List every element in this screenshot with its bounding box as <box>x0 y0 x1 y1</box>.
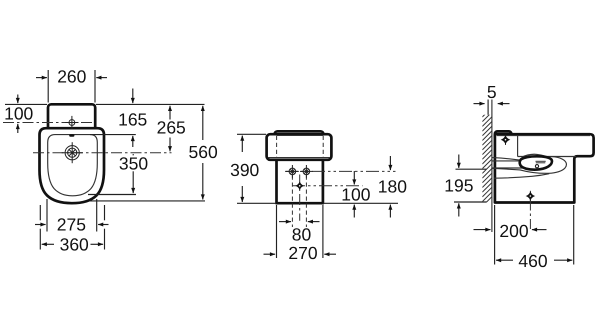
svg-text:265: 265 <box>157 118 186 138</box>
spray outline (side) <box>492 157 566 174</box>
water inlet tick (plan) <box>69 134 74 137</box>
body (front) <box>277 159 323 203</box>
dim 165 (plan) <box>90 89 136 148</box>
drain symbol (plan) <box>62 142 83 163</box>
tap hole right (front) <box>300 165 313 178</box>
lid seam <box>277 134 323 136</box>
dim 195 (side) <box>458 155 460 217</box>
fixing star marker (front) <box>295 181 304 190</box>
svg-text:200: 200 <box>499 221 528 241</box>
dim 100 (plan left) <box>5 95 47 134</box>
svg-text:100: 100 <box>4 103 33 123</box>
svg-text:260: 260 <box>57 67 86 87</box>
svg-text:360: 360 <box>60 235 89 255</box>
lid hidden edges (front) <box>276 136 278 158</box>
bidet tap (side) <box>520 156 552 169</box>
svg-text:195: 195 <box>444 175 473 195</box>
bowl inner rim (plan) <box>48 135 98 196</box>
dim 390 (front) <box>241 136 243 202</box>
svg-text:350: 350 <box>119 154 148 174</box>
tap hidden lines down (front) <box>291 176 293 228</box>
faucet dome top (side) <box>522 154 551 158</box>
wall hatching <box>482 107 492 206</box>
base bottom extensions (front) <box>237 202 276 204</box>
rim underside line (side) <box>518 156 576 158</box>
svg-text:460: 460 <box>518 251 547 271</box>
svg-text:275: 275 <box>57 214 86 234</box>
svg-text:100: 100 <box>341 184 370 204</box>
dim 270 (front) <box>264 205 337 258</box>
dim 265 (plan) <box>169 106 171 152</box>
outer bowl bottom extension <box>90 200 205 202</box>
dim 560 (plan) <box>202 106 204 200</box>
wall face line <box>491 100 493 233</box>
dim 5 (side top) <box>474 103 510 105</box>
spout bottom line (side) <box>492 167 528 169</box>
bowl outer rim (plan) <box>40 128 105 203</box>
wall extension for 5 dim <box>487 100 489 115</box>
centerline below pedestal (side) <box>529 200 531 230</box>
tap hole symbol (plan) <box>65 116 78 129</box>
svg-text:270: 270 <box>288 243 317 263</box>
tank seam <box>268 157 330 159</box>
taps centerline (front) <box>285 170 396 172</box>
dim 180 (front) <box>389 156 391 218</box>
deck seam (side) <box>497 135 590 137</box>
tank (front) <box>267 134 332 160</box>
dim 350 (plan) <box>132 154 134 193</box>
centerline through drain (plan) <box>33 152 172 154</box>
fixing centerline (front) <box>292 185 363 187</box>
fixing star on deck (side) <box>505 135 507 145</box>
centerline through tap hole (plan) <box>3 122 92 124</box>
rim back shoulder (side) <box>517 136 519 157</box>
fixing star on pedestal (side) <box>529 191 531 201</box>
bowl back wall (side) <box>494 174 550 179</box>
cistern lid profile bump (side) <box>495 131 511 139</box>
spout top curve (side) <box>492 158 521 161</box>
195 reference line to wall <box>456 168 487 170</box>
bidet body profile (side) <box>495 134 594 202</box>
dim 460 (side) <box>495 205 574 265</box>
cistern lid (front) <box>275 131 324 141</box>
deck top extension to 560 <box>96 103 205 105</box>
tank top extension (front) <box>237 133 266 135</box>
svg-text:165: 165 <box>118 109 147 129</box>
dim 80 (front) <box>279 221 320 223</box>
tap deck (plan) <box>48 104 95 130</box>
floor extension to wall <box>454 201 487 203</box>
svg-text:560: 560 <box>188 142 217 162</box>
dim 360 (plan bottom) <box>40 205 104 250</box>
dim 200 (side) <box>474 229 547 231</box>
dim 275 (plan bottom) <box>35 199 109 232</box>
spout inner line (side) <box>492 160 525 162</box>
svg-text:5: 5 <box>487 82 497 102</box>
inner bowl bottom extension <box>88 194 136 196</box>
dim 260 (plan top) <box>36 70 107 103</box>
svg-text:80: 80 <box>292 224 312 244</box>
vertical centerline (front) <box>299 175 301 221</box>
svg-text:390: 390 <box>230 160 259 180</box>
tap hole left (front) <box>286 165 299 178</box>
dim 100 (front) <box>353 171 355 218</box>
svg-text:180: 180 <box>378 176 407 196</box>
